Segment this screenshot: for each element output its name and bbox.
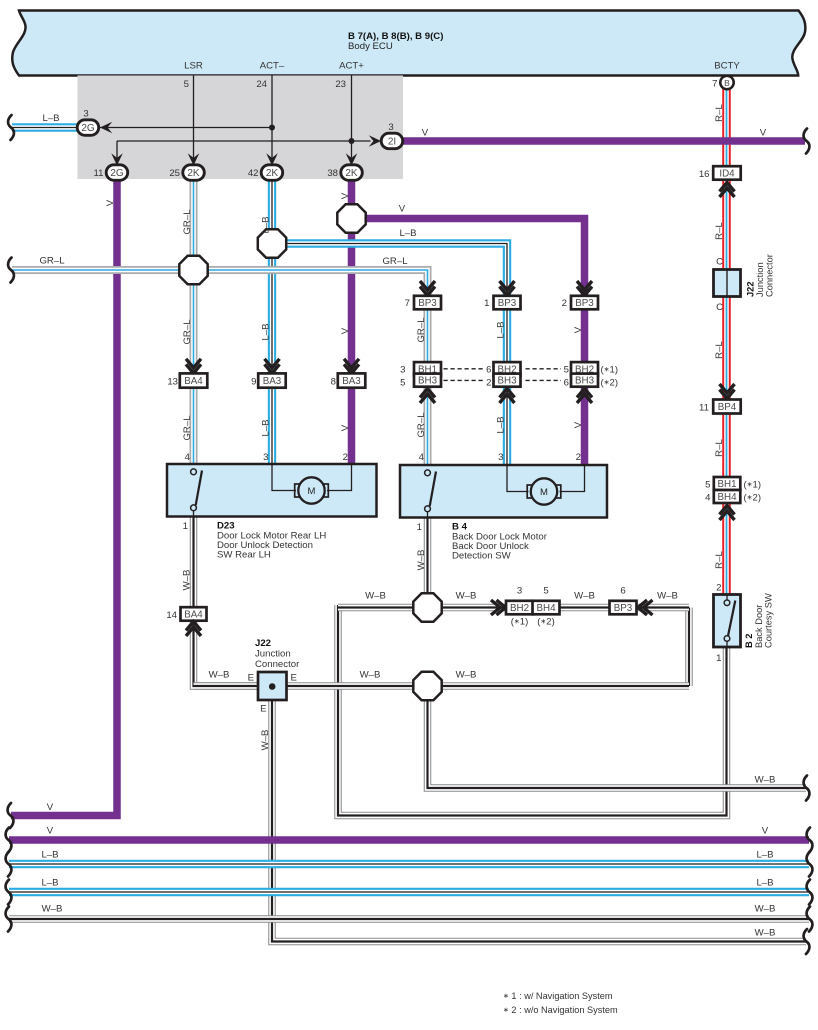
svg-text:E: E xyxy=(260,704,266,715)
break mark right W-B J22 exit xyxy=(804,929,810,954)
svg-text:ACT+: ACT+ xyxy=(339,61,364,72)
svg-text:(∗2): (∗2) xyxy=(744,493,762,504)
svg-text:V: V xyxy=(105,199,116,206)
connector 11 BP4 xyxy=(720,384,735,393)
svg-text:W–B: W–B xyxy=(755,775,776,786)
svg-text:B 2: B 2 xyxy=(744,634,754,648)
svg-text:V: V xyxy=(762,826,769,837)
svg-text:1: 1 xyxy=(484,298,489,309)
connector 2 BP3 xyxy=(577,281,592,290)
svg-text:L–B: L–B xyxy=(261,419,272,436)
svg-text:GR–L: GR–L xyxy=(39,256,65,267)
dashed link BH row1 left xyxy=(444,368,484,370)
break mark left L-B xyxy=(8,115,14,140)
break mark left GR-L xyxy=(8,258,14,283)
motor M B4 xyxy=(507,465,529,492)
junction octagon L-B xyxy=(258,229,286,257)
wire L-B from pin 42 2K down to D23 pin 3 xyxy=(268,176,276,465)
wire V from pin 11 2G down to left exit xyxy=(11,176,117,816)
svg-text:W–B: W–B xyxy=(755,928,776,939)
svg-text:BA4: BA4 xyxy=(184,376,203,387)
svg-text:W–B: W–B xyxy=(365,591,386,602)
svg-text:(∗1): (∗1) xyxy=(601,365,619,376)
svg-text:(∗2): (∗2) xyxy=(537,617,555,628)
arrow into 25 2K xyxy=(188,153,200,165)
svg-text:BH4: BH4 xyxy=(536,603,556,614)
wire L-B from junction to 1 BP3 xyxy=(272,244,507,297)
svg-text:L–B: L–B xyxy=(756,850,773,861)
svg-text:BA4: BA4 xyxy=(184,610,203,621)
svg-text:4: 4 xyxy=(419,452,425,463)
svg-text:W–B: W–B xyxy=(657,591,678,602)
svg-text:BA3: BA3 xyxy=(342,376,361,387)
svg-text:1: 1 xyxy=(417,522,422,533)
svg-text:6: 6 xyxy=(486,365,491,376)
chevrons left out of BP3 xyxy=(644,600,653,615)
svg-text:BH4: BH4 xyxy=(717,492,737,503)
bus W-B bottom xyxy=(9,915,809,923)
svg-text:R–L: R–L xyxy=(714,104,725,122)
svg-text:24: 24 xyxy=(256,79,267,90)
break mark right W-B junction B exit xyxy=(804,776,810,801)
svg-text:W–B: W–B xyxy=(182,570,193,591)
junction octagon W-B B xyxy=(413,672,441,700)
dashed link BH row2 left xyxy=(444,379,484,381)
svg-text:V: V xyxy=(573,326,584,333)
arrow into 38 2K xyxy=(346,153,358,165)
svg-text:V: V xyxy=(573,421,584,428)
chevrons up below BH3 mid xyxy=(500,394,515,403)
svg-text:2K: 2K xyxy=(345,168,358,179)
svg-text:Connector: Connector xyxy=(255,659,300,670)
wire W-B right loop corner from BP3 to junction B line xyxy=(685,608,693,687)
switch B2 xyxy=(726,595,728,601)
component B4 back door lock motor xyxy=(400,465,607,518)
svg-text:BH3: BH3 xyxy=(418,376,438,387)
svg-text:V: V xyxy=(760,128,767,139)
break mark right L-B bus2 xyxy=(807,880,813,905)
svg-text:C: C xyxy=(716,257,723,268)
svg-text:2K: 2K xyxy=(187,168,200,179)
break mark left L-B bus1 xyxy=(6,852,12,877)
svg-text:V: V xyxy=(399,204,406,215)
svg-text:L–B: L–B xyxy=(41,850,58,861)
svg-text:GR–L: GR–L xyxy=(416,317,427,343)
break mark left V exit xyxy=(8,803,14,828)
arrow into 3 2G xyxy=(100,122,112,134)
wire W-B from 14 BA4 corner through J22 to corner xyxy=(194,682,690,690)
svg-text:L–B: L–B xyxy=(41,878,58,889)
svg-text:2: 2 xyxy=(486,378,491,389)
svg-text:Body ECU: Body ECU xyxy=(348,41,393,52)
svg-text:GR–L: GR–L xyxy=(382,256,408,267)
svg-text:C: C xyxy=(716,302,723,313)
ECU internal connector shading box xyxy=(78,76,404,180)
svg-text:Back Door: Back Door xyxy=(754,605,764,648)
connector 7 BP3 xyxy=(420,281,435,290)
break mark right L-B bus1 xyxy=(807,852,813,877)
svg-text:BA3: BA3 xyxy=(263,376,282,387)
junction octagon GR-L xyxy=(179,256,207,284)
svg-text:1: 1 xyxy=(716,653,721,664)
wire ECU internal ACT+ pin 23 xyxy=(351,76,353,159)
svg-text:BP3: BP3 xyxy=(498,298,517,309)
svg-text:7: 7 xyxy=(712,79,717,90)
svg-text:2: 2 xyxy=(576,452,581,463)
svg-text:23: 23 xyxy=(335,79,346,90)
svg-text:V: V xyxy=(47,802,54,813)
wire V from pin 38 2K down to D23 pin 2 xyxy=(348,176,356,465)
connector 13 BA4 xyxy=(186,359,201,368)
bus V bottom xyxy=(9,836,809,844)
wire GR-L 7 BP3 to B4 pin 4 xyxy=(424,296,432,466)
junction octagon V xyxy=(337,204,365,232)
connector 9 BA3 xyxy=(265,359,280,368)
svg-text:GR–L: GR–L xyxy=(182,319,193,345)
svg-text:3: 3 xyxy=(388,122,393,133)
svg-text:BP3: BP3 xyxy=(614,603,633,614)
svg-text:BP3: BP3 xyxy=(418,298,437,309)
svg-text:Courtesy SW: Courtesy SW xyxy=(764,593,774,648)
svg-text:V: V xyxy=(47,826,54,837)
bus L-B bottom 1 xyxy=(9,860,809,868)
svg-text:J22: J22 xyxy=(746,281,756,297)
svg-text:W–B: W–B xyxy=(456,670,477,681)
svg-text:∗ 1 : w/ Navigation System: ∗ 1 : w/ Navigation System xyxy=(503,991,613,1001)
svg-text:42: 42 xyxy=(248,168,259,179)
svg-text:8: 8 xyxy=(331,377,336,388)
svg-text:ACT–: ACT– xyxy=(260,61,285,72)
svg-text:W–B: W–B xyxy=(260,730,271,751)
dashed link BH row1 right xyxy=(526,368,562,370)
break mark left W-B bus xyxy=(6,907,12,932)
svg-text:2: 2 xyxy=(343,452,348,463)
dashed link BH row2 right xyxy=(526,379,562,381)
Body ECU block B7/B8/B9 xyxy=(12,11,805,76)
svg-text:GR–L: GR–L xyxy=(182,415,193,441)
svg-text:11: 11 xyxy=(94,168,104,179)
svg-text:5: 5 xyxy=(543,586,548,597)
wire internal link to pin 3 2I and pin 11 2G xyxy=(117,141,371,158)
svg-text:R–L: R–L xyxy=(714,551,725,569)
junction octagon W-B A xyxy=(413,593,441,621)
svg-text:V: V xyxy=(340,424,351,431)
svg-text:5: 5 xyxy=(564,365,569,376)
connector 1 BP3 xyxy=(500,281,515,290)
svg-text:R–L: R–L xyxy=(714,439,725,457)
junction connector J22 left xyxy=(258,672,287,700)
svg-text:M: M xyxy=(540,487,548,498)
svg-text:6: 6 xyxy=(564,378,569,389)
svg-text:16: 16 xyxy=(699,169,710,180)
wire V from junction to 2 BP3 xyxy=(352,219,585,297)
svg-text:∗ 2 : w/o Navigation System: ∗ 2 : w/o Navigation System xyxy=(503,1005,618,1015)
wire GR-L from pin 25 2K down to D23 pin 4 xyxy=(190,176,198,465)
connector 8 BA3 xyxy=(344,359,359,368)
wire V from pin 3 2I to right edge xyxy=(403,137,805,145)
svg-text:R–L: R–L xyxy=(714,341,725,359)
svg-text:7: 7 xyxy=(405,298,410,309)
svg-text:L–B: L–B xyxy=(756,878,773,889)
wire ECU internal LSR pin 5 xyxy=(193,76,195,159)
svg-text:3: 3 xyxy=(517,586,522,597)
svg-text:L–B: L–B xyxy=(496,321,507,338)
chevrons up below BH3 left xyxy=(420,394,435,403)
wire W-B from junction B down then right to right edge xyxy=(428,695,807,788)
svg-text:W–B: W–B xyxy=(416,550,427,571)
junction connector J22 right xyxy=(714,270,741,297)
svg-text:BH3: BH3 xyxy=(575,376,595,387)
svg-text:1: 1 xyxy=(183,521,188,532)
svg-text:38: 38 xyxy=(327,168,338,179)
svg-text:BH1: BH1 xyxy=(717,479,736,490)
wire W-B from D23 pin 1 down through 14 BA4 to J22 xyxy=(194,516,259,686)
svg-text:2: 2 xyxy=(716,583,721,594)
switch B4 xyxy=(425,470,431,476)
arrow into 11 2G xyxy=(111,153,123,165)
svg-text:5: 5 xyxy=(184,79,189,90)
component D23 door lock motor rear LH xyxy=(167,464,377,517)
break mark right V top xyxy=(804,129,810,154)
node junction ACT+ link xyxy=(349,138,355,144)
switch D23 xyxy=(191,469,197,475)
svg-text:B: B xyxy=(724,78,730,88)
svg-text:3: 3 xyxy=(498,452,503,463)
svg-text:BP4: BP4 xyxy=(718,402,737,413)
wire W-B from J22 bottom down to bottom exit xyxy=(272,700,806,942)
svg-text:L–B: L–B xyxy=(399,228,416,239)
svg-text:W–B: W–B xyxy=(574,591,595,602)
svg-text:E: E xyxy=(291,673,297,684)
chevrons right into BH2 xyxy=(491,600,500,615)
node junction ACT- link xyxy=(269,125,275,131)
svg-text:V: V xyxy=(340,327,351,334)
component B2 back door courtesy switch xyxy=(714,595,741,648)
svg-text:2: 2 xyxy=(562,298,567,309)
svg-text:3: 3 xyxy=(263,452,268,463)
svg-text:E: E xyxy=(248,673,254,684)
svg-text:BCTY: BCTY xyxy=(714,61,740,72)
svg-text:(∗2): (∗2) xyxy=(601,378,619,389)
break mark right V bus xyxy=(807,828,813,853)
svg-text:J22: J22 xyxy=(255,638,271,649)
svg-text:Detection SW: Detection SW xyxy=(452,551,512,562)
svg-text:L–B: L–B xyxy=(496,416,507,433)
svg-text:13: 13 xyxy=(167,377,178,388)
wire GR-L from left edge to 7 BP3 xyxy=(12,270,428,296)
svg-text:5: 5 xyxy=(705,480,710,491)
svg-text:W–B: W–B xyxy=(209,670,230,681)
pin 7 B circle xyxy=(720,76,733,89)
svg-text:W–B: W–B xyxy=(456,591,477,602)
svg-text:(∗1): (∗1) xyxy=(744,480,762,491)
svg-text:6: 6 xyxy=(620,586,625,597)
svg-text:4: 4 xyxy=(705,493,711,504)
arrow into 42 2K xyxy=(266,153,278,165)
svg-text:LSR: LSR xyxy=(184,61,203,72)
svg-text:L–B: L–B xyxy=(261,323,272,340)
svg-text:BH3: BH3 xyxy=(497,376,517,387)
svg-text:V: V xyxy=(422,128,429,139)
svg-text:2G: 2G xyxy=(110,168,124,179)
svg-text:25: 25 xyxy=(169,168,180,179)
break mark left L-B bus2 xyxy=(6,880,12,905)
svg-text:2G: 2G xyxy=(81,123,95,134)
wire V 2 BP3 to B4 pin 2 xyxy=(581,296,589,466)
chevrons up below BH3 right xyxy=(577,394,592,403)
svg-text:11: 11 xyxy=(699,403,709,414)
svg-text:3: 3 xyxy=(83,109,88,120)
svg-text:4: 4 xyxy=(185,452,191,463)
svg-text:14: 14 xyxy=(166,610,177,621)
svg-text:L–B: L–B xyxy=(42,113,59,124)
wire W-B from corner through BH2 BH4 BP3 to corner xyxy=(338,604,689,612)
break mark left V bus xyxy=(6,828,12,853)
svg-text:V: V xyxy=(340,192,351,199)
svg-text:SW Rear LH: SW Rear LH xyxy=(217,550,271,561)
svg-text:BH2: BH2 xyxy=(510,603,529,614)
wire ECU internal ACT- pin 24 xyxy=(271,76,273,159)
svg-text:W–B: W–B xyxy=(360,670,381,681)
bus L-B bottom 2 xyxy=(9,888,809,896)
svg-text:Connector: Connector xyxy=(765,254,775,297)
svg-text:ID4: ID4 xyxy=(719,169,735,180)
arrow into 3 2I xyxy=(369,135,381,147)
svg-text:BP3: BP3 xyxy=(575,298,594,309)
wire internal link to pin 3 2G xyxy=(100,127,272,129)
wire R-L from BCTY pin 7 down to B2 pin 2 xyxy=(722,88,731,595)
svg-text:Junction: Junction xyxy=(755,262,765,297)
svg-text:3: 3 xyxy=(400,365,405,376)
wire W-B loop from junction left corner down and right up to B2 pin 1 xyxy=(338,605,727,816)
svg-text:R–L: R–L xyxy=(714,222,725,240)
svg-text:GR–L: GR–L xyxy=(416,412,427,438)
svg-text:9: 9 xyxy=(251,377,256,388)
svg-text:Junction: Junction xyxy=(255,649,291,660)
svg-text:W–B: W–B xyxy=(755,904,776,915)
svg-text:5: 5 xyxy=(400,378,405,389)
svg-text:M: M xyxy=(308,486,316,497)
wire W-B from B4 pin 1 down to junction xyxy=(424,518,432,601)
svg-text:GR–L: GR–L xyxy=(182,209,193,235)
motor M D23 xyxy=(272,464,296,491)
wire L-B 1 BP3 to B4 pin 3 xyxy=(503,296,511,466)
wire L-B from left edge to pin 3 2G xyxy=(12,123,78,131)
svg-text:L–B: L–B xyxy=(261,216,272,233)
break mark right W-B bus xyxy=(807,907,813,932)
svg-text:W–B: W–B xyxy=(42,904,63,915)
svg-text:2K: 2K xyxy=(266,168,279,179)
svg-text:(∗1): (∗1) xyxy=(511,617,529,628)
svg-text:2I: 2I xyxy=(388,137,396,148)
